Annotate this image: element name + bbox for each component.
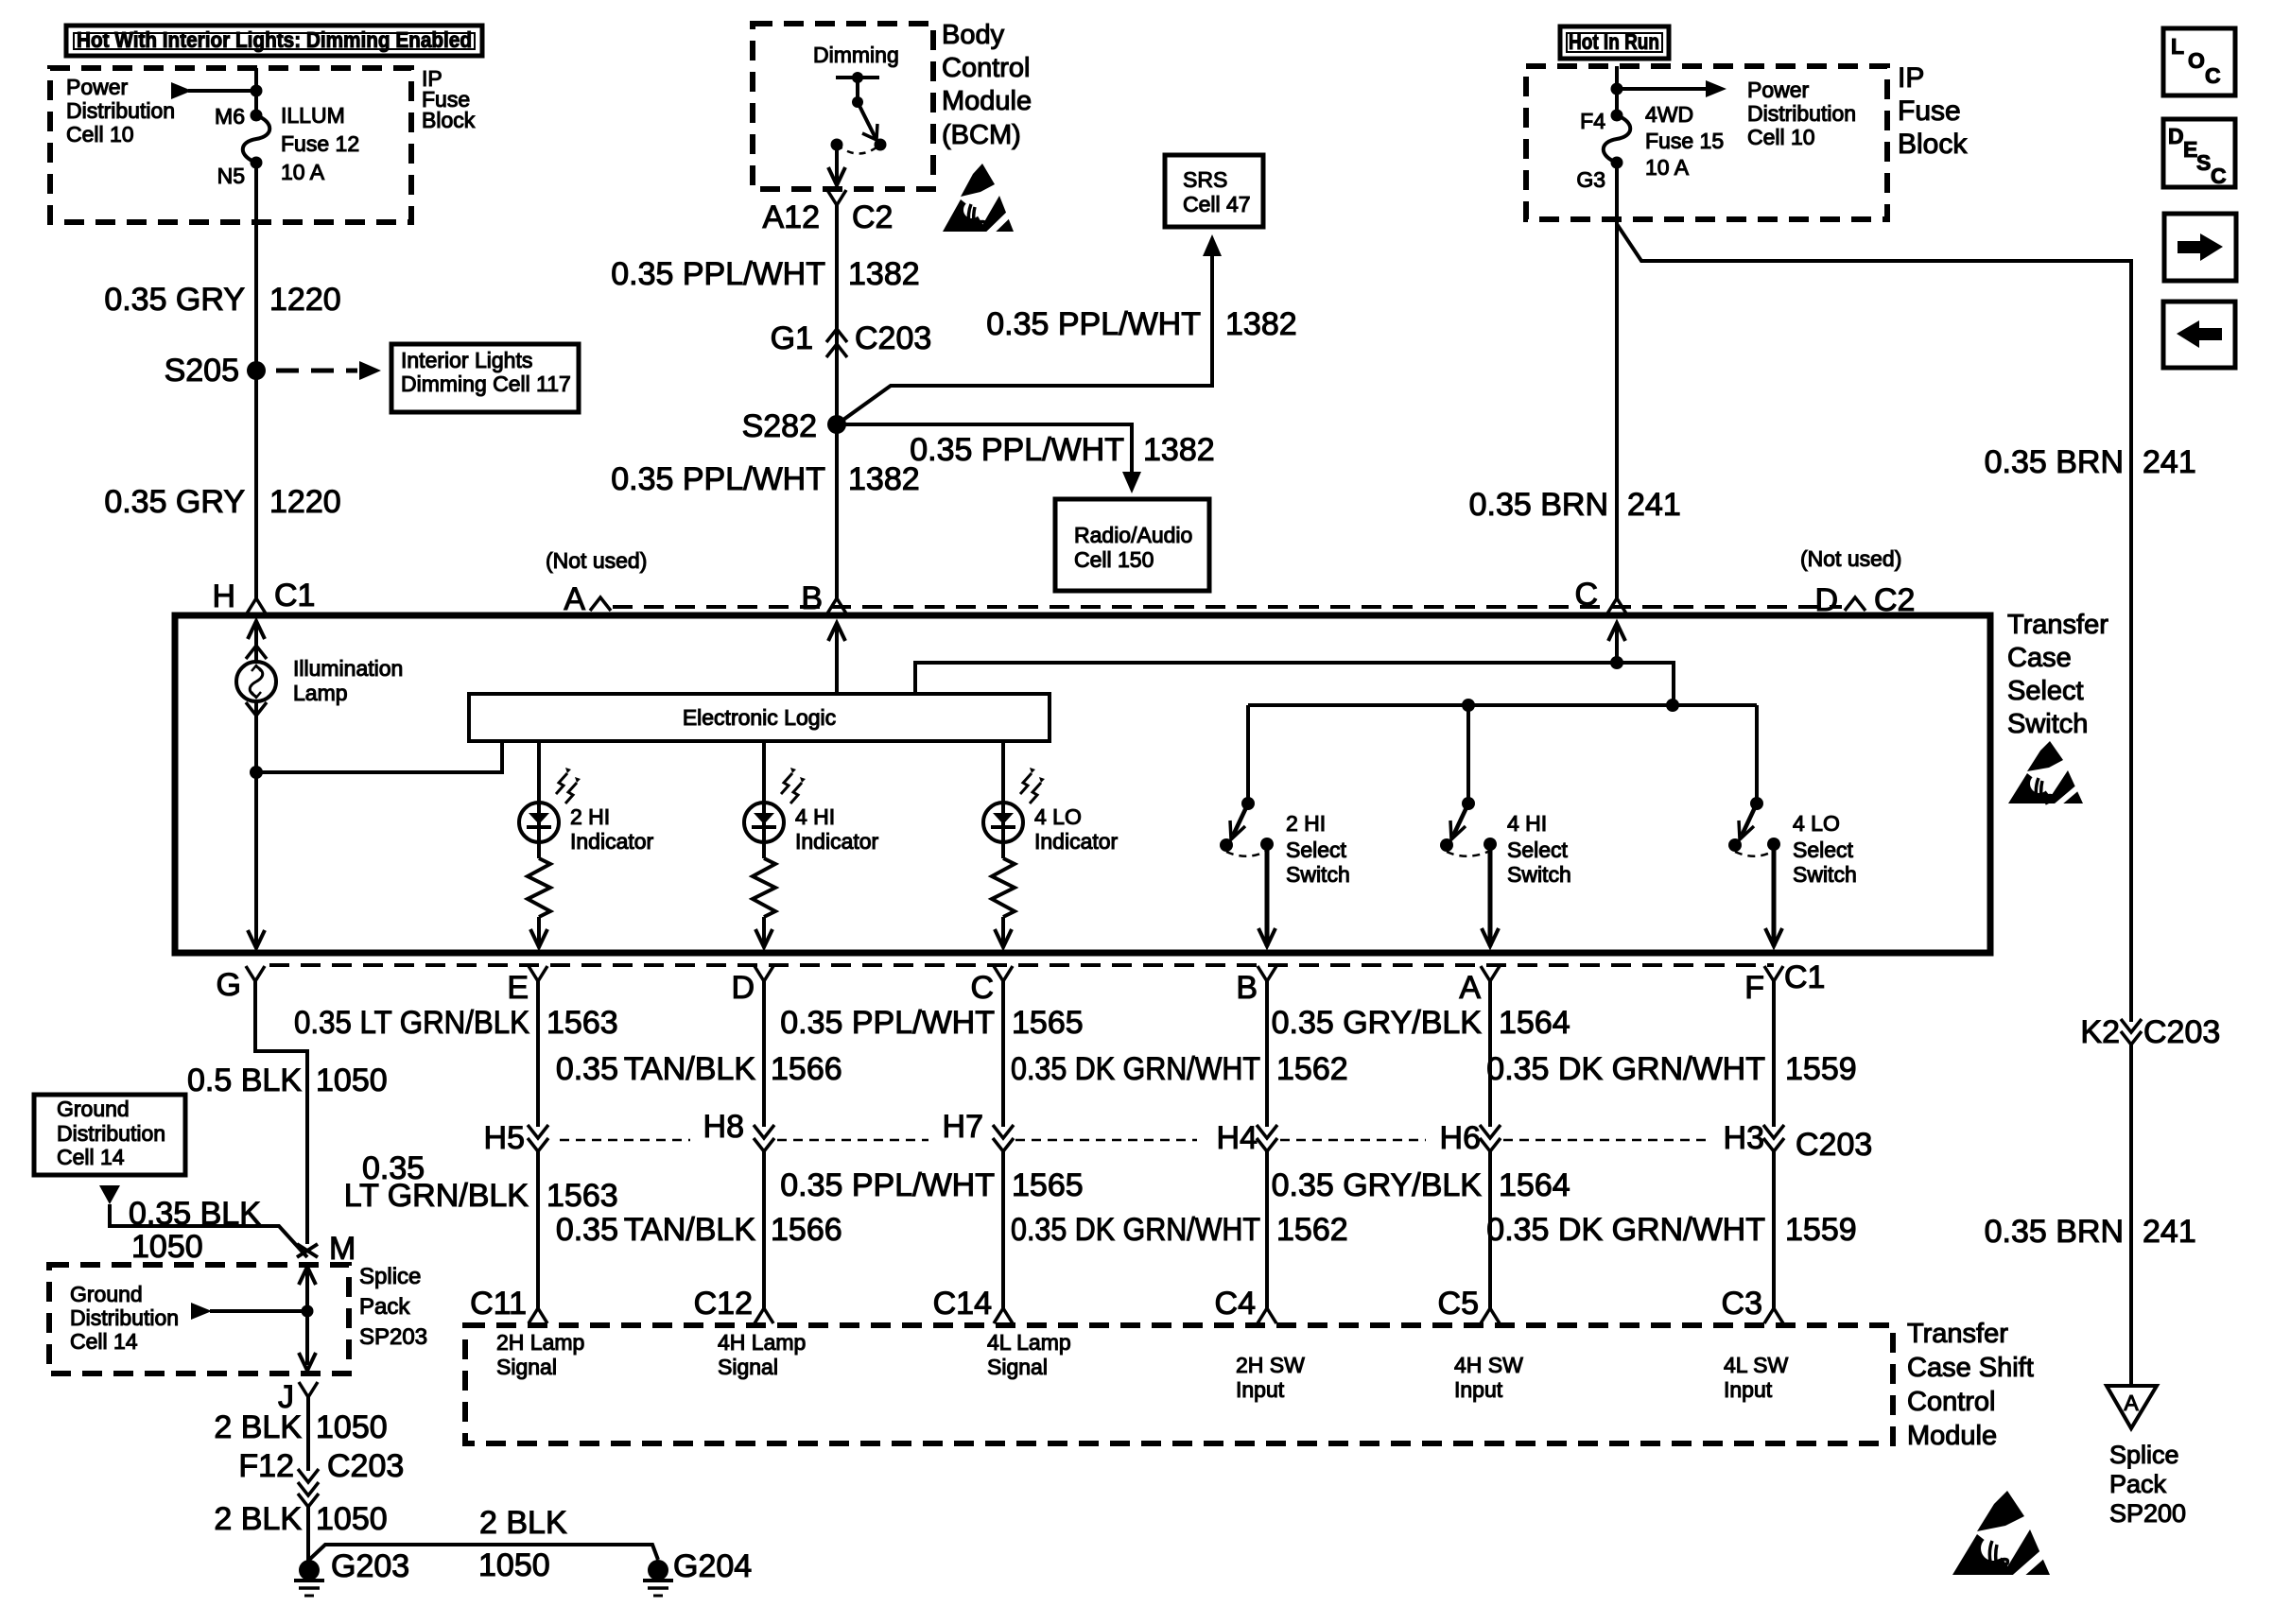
svg-text:Switch: Switch (1286, 862, 1350, 887)
svg-text:Indicator: Indicator (1034, 829, 1119, 854)
wire: 2 BLK 1050 C203 to G203 (306, 1507, 310, 1570)
svg-text:1220: 1220 (269, 484, 341, 520)
svg-text:L: L (2171, 34, 2184, 59)
svg-text:1564: 1564 (1499, 1167, 1570, 1203)
svg-text:4 HI: 4 HI (1507, 811, 1547, 836)
connector C203 chevrons column F (1763, 1125, 1784, 1138)
svg-text:241: 241 (2143, 1214, 2196, 1250)
IP fuse block dashed box (right) (1526, 66, 1887, 219)
node: feed junction at C riser (1610, 656, 1623, 669)
4 HI select switch (1462, 797, 1475, 810)
svg-text:0.35 GRY: 0.35 GRY (104, 282, 245, 318)
svg-text:TAN/BLK: TAN/BLK (624, 1212, 756, 1248)
svg-text:0.35 DK GRN/WHT: 0.35 DK GRN/WHT (1011, 1212, 1260, 1248)
svg-text:SP203: SP203 (359, 1324, 427, 1350)
svg-text:H: H (212, 579, 235, 614)
Transfer Case Select Switch box (175, 615, 1990, 953)
svg-text:0.35 PPL/WHT: 0.35 PPL/WHT (910, 432, 1124, 468)
wire: electronic logic ground branch (256, 741, 502, 772)
svg-text:0.35 LT GRN/BLK: 0.35 LT GRN/BLK (294, 1005, 529, 1041)
fuse F12 ILLUM Fuse 12 10 A symbol (243, 115, 270, 163)
svg-text:0.35 PPL/WHT: 0.35 PPL/WHT (611, 256, 825, 292)
Electronic Logic box (469, 694, 1050, 741)
svg-text:1563: 1563 (547, 1178, 618, 1214)
svg-text:N5: N5 (217, 164, 245, 188)
svg-text:1382: 1382 (848, 256, 920, 292)
svg-text:Distribution: Distribution (57, 1121, 165, 1146)
svg-text:A: A (2124, 1391, 2139, 1415)
Radio/Audio Cell 150 box (1055, 499, 1209, 591)
svg-text:Splice: Splice (2109, 1441, 2179, 1469)
ground G204 (648, 1560, 668, 1581)
svg-text:2 HI: 2 HI (570, 804, 610, 829)
wire: 4LO switch feed drop (1755, 705, 1759, 802)
svg-text:241: 241 (1627, 487, 1681, 523)
svg-text:Transfer: Transfer (2007, 610, 2108, 640)
svg-text:O: O (2188, 48, 2205, 73)
wire: electronic logic to 4 LO indicator (1001, 741, 1005, 803)
svg-text:4H Lamp: 4H Lamp (718, 1330, 806, 1355)
svg-text:M6: M6 (215, 104, 245, 129)
svg-text:G204: G204 (673, 1548, 752, 1584)
svg-text:Switch: Switch (1507, 862, 1571, 887)
svg-text:2H Lamp: 2H Lamp (496, 1330, 584, 1355)
svg-text:A: A (1459, 970, 1481, 1006)
Interior Lights Dimming Cell 117 box (391, 344, 579, 412)
wire: column B upper segment (1265, 981, 1269, 1127)
svg-text:D: D (2168, 124, 2184, 148)
svg-text:Illumination: Illumination (293, 656, 403, 681)
svg-text:C5: C5 (1438, 1286, 1479, 1322)
svg-text:H7: H7 (943, 1109, 983, 1145)
wire: column D upper segment (762, 981, 766, 1127)
svg-text:Ground: Ground (70, 1282, 143, 1306)
next arrow nav box (2164, 214, 2236, 281)
wire: column D lower segment (762, 1151, 766, 1308)
svg-text:Fuse 12: Fuse 12 (281, 131, 359, 156)
connector C203 chevrons column E (528, 1125, 548, 1138)
svg-text:G1: G1 (771, 320, 813, 356)
svg-text:F: F (1744, 970, 1764, 1006)
svg-text:Select: Select (1793, 838, 1854, 862)
svg-text:Select: Select (1286, 838, 1347, 862)
svg-text:Cell 150: Cell 150 (1074, 547, 1154, 572)
Ground Distribution Cell 14 box (34, 1095, 185, 1175)
wire: electronic logic to select switch feed (915, 663, 1674, 705)
svg-text:C12: C12 (694, 1286, 753, 1322)
svg-text:C: C (2211, 164, 2227, 188)
svg-text:B: B (1236, 970, 1258, 1006)
wire: fuse block top stub (right) (1615, 66, 1619, 115)
svg-text:1563: 1563 (547, 1005, 618, 1041)
svg-text:Select: Select (2007, 676, 2084, 706)
svg-text:0.35: 0.35 (556, 1051, 618, 1087)
resistor for 4 HI indicator (762, 842, 766, 858)
svg-text:1562: 1562 (1276, 1051, 1348, 1087)
svg-text:1559: 1559 (1785, 1051, 1857, 1087)
svg-text:Module: Module (1907, 1421, 1997, 1451)
svg-text:SRS: SRS (1183, 167, 1227, 192)
SRS Cell 47 box (1165, 155, 1263, 227)
illumination lamp symbol (236, 662, 276, 701)
wire: column E lower segment (536, 1151, 540, 1308)
wire: 0.35 BRN 241 branch to right edge (1617, 224, 2131, 1022)
ground reference triangle (99, 1185, 120, 1204)
svg-text:H8: H8 (703, 1109, 744, 1145)
svg-text:S: S (2196, 150, 2211, 175)
svg-text:2 BLK: 2 BLK (214, 1501, 302, 1537)
svg-text:SP200: SP200 (2109, 1499, 2186, 1528)
svg-text:Lamp: Lamp (293, 681, 348, 705)
svg-text:H4: H4 (1217, 1120, 1258, 1156)
svg-text:2 HI: 2 HI (1286, 811, 1326, 836)
svg-text:Power: Power (1747, 78, 1810, 102)
4 LO select switch (1750, 797, 1763, 810)
svg-text:4H SW: 4H SW (1454, 1353, 1523, 1377)
svg-text:Signal: Signal (718, 1355, 778, 1379)
svg-text:4WD: 4WD (1645, 102, 1693, 127)
svg-text:Pack: Pack (2109, 1470, 2167, 1498)
svg-text:G: G (217, 967, 241, 1003)
DESC nav box (2163, 119, 2235, 187)
svg-text:0.35 PPL/WHT: 0.35 PPL/WHT (986, 306, 1201, 342)
svg-text:1382: 1382 (1225, 306, 1297, 342)
svg-text:Switch: Switch (2007, 709, 2088, 739)
ground distribution feed arrow (210, 1309, 307, 1313)
wire: illumination lamp feed (248, 621, 265, 639)
wire: S282 branch to Radio/Audio (837, 424, 1132, 473)
svg-text:Electronic Logic: Electronic Logic (683, 705, 836, 730)
svg-text:0.35 BRN: 0.35 BRN (1985, 1214, 2124, 1250)
wire: column C upper segment (1001, 981, 1005, 1127)
svg-text:(BCM): (BCM) (942, 120, 1021, 150)
svg-text:0.35 DK GRN/WHT: 0.35 DK GRN/WHT (1486, 1051, 1765, 1087)
wire: dimmer output (835, 145, 839, 185)
resistor for 2 HI indicator (537, 842, 541, 858)
svg-text:0.35 GRY/BLK: 0.35 GRY/BLK (1272, 1005, 1483, 1041)
svg-text:Transfer: Transfer (1907, 1319, 2008, 1349)
svg-text:Case: Case (2007, 643, 2072, 673)
svg-text:4 LO: 4 LO (1034, 804, 1082, 829)
svg-text:0.35 PPL/WHT: 0.35 PPL/WHT (780, 1167, 995, 1203)
svg-text:Indicator: Indicator (795, 829, 879, 854)
2 HI indicator LED symbol (519, 803, 559, 842)
wire: lamp return to pin G (254, 772, 258, 948)
svg-text:4L SW: 4L SW (1724, 1353, 1788, 1377)
connector C203 chevrons column C (993, 1125, 1014, 1138)
svg-text:C14: C14 (933, 1286, 992, 1322)
wire: BCM dimming input to electronic logic (828, 623, 845, 641)
node: bus junction at right riser (1666, 699, 1679, 712)
banner box: Hot With Interior Lights: Dimming Enabled (66, 26, 482, 56)
previous arrow nav box (2163, 302, 2235, 368)
node: fuse feed junction (251, 85, 263, 97)
Body Control Module dashed box (753, 24, 933, 189)
resistor for 4 LO indicator (1001, 842, 1005, 858)
svg-text:C1: C1 (274, 578, 315, 613)
wire: column E upper segment (536, 981, 540, 1127)
svg-text:Signal: Signal (987, 1355, 1048, 1379)
svg-text:C4: C4 (1215, 1286, 1256, 1322)
svg-text:K2: K2 (2080, 1014, 2120, 1050)
connector C203 chevrons column A (1480, 1125, 1501, 1138)
svg-text:10 A: 10 A (281, 160, 325, 184)
connector C203 chevrons column B (1257, 1125, 1277, 1138)
wire: 2 BLK 1050 to G204 (309, 1545, 658, 1560)
svg-text:Interior Lights: Interior Lights (401, 348, 532, 372)
wire: column F lower segment (1772, 1151, 1776, 1308)
svg-text:C203: C203 (327, 1448, 404, 1484)
svg-text:10 A: 10 A (1645, 155, 1690, 180)
svg-text:C203: C203 (1796, 1127, 1872, 1163)
svg-text:Hot In Run: Hot In Run (1569, 29, 1659, 54)
svg-text:1559: 1559 (1785, 1212, 1857, 1248)
wire: fuse block top stub (254, 68, 258, 115)
svg-text:1050: 1050 (316, 1409, 388, 1445)
svg-text:Select: Select (1507, 838, 1569, 862)
svg-text:Cell 14: Cell 14 (57, 1145, 125, 1169)
svg-text:S282: S282 (742, 408, 817, 444)
svg-text:C203: C203 (2143, 1014, 2220, 1050)
svg-text:C203: C203 (855, 320, 931, 356)
svg-text:(Not used): (Not used) (546, 548, 647, 573)
svg-text:1050: 1050 (316, 1501, 388, 1537)
svg-text:H6: H6 (1440, 1120, 1481, 1156)
svg-text:1220: 1220 (269, 282, 341, 318)
svg-text:1050: 1050 (478, 1547, 550, 1583)
svg-text:1565: 1565 (1012, 1005, 1084, 1041)
wire: splice pack through wire (299, 1267, 316, 1285)
svg-text:C: C (2205, 63, 2221, 88)
wire: 0.35 BRN 241 down to pin C (1615, 163, 1619, 598)
node: lamp/logic junction (250, 766, 263, 779)
svg-text:Control: Control (1907, 1387, 1996, 1417)
wire: electronic logic to 4 HI indicator (762, 741, 766, 803)
fuse 4WD Fuse 15 10 A symbol (1604, 115, 1631, 163)
svg-text:0.35 GRY/BLK: 0.35 GRY/BLK (1272, 1167, 1483, 1203)
node: splice pack junction (302, 1305, 314, 1318)
svg-text:0.35 BRN: 0.35 BRN (1469, 487, 1608, 523)
svg-text:A: A (564, 581, 585, 617)
svg-text:C3: C3 (1722, 1286, 1762, 1322)
svg-text:LT GRN/BLK: LT GRN/BLK (344, 1178, 529, 1214)
svg-text:Fuse: Fuse (1898, 95, 1961, 127)
svg-text:1562: 1562 (1276, 1212, 1348, 1248)
connector C203 chevrons column D (754, 1125, 774, 1138)
svg-text:B: B (801, 580, 823, 616)
svg-text:G3: G3 (1576, 167, 1605, 192)
svg-text:Ground: Ground (57, 1097, 130, 1121)
svg-text:C2: C2 (852, 199, 893, 235)
svg-text:Pack: Pack (359, 1294, 410, 1320)
wire: 0.35 PPL/WHT 1382 BCM to S282 (835, 205, 839, 598)
svg-text:Distribution: Distribution (66, 98, 175, 123)
svg-text:Cell 47: Cell 47 (1183, 192, 1251, 216)
svg-text:Distribution: Distribution (70, 1305, 179, 1330)
connector G1 / C203 in-line (826, 329, 847, 342)
svg-text:C1: C1 (1784, 959, 1825, 995)
wire: below illumination lamp (246, 702, 267, 716)
svg-text:Power: Power (66, 75, 129, 99)
wire: 0.5 BLK 1050 pin G to splice pack (255, 981, 307, 1244)
svg-text:Fuse 15: Fuse 15 (1645, 129, 1724, 153)
svg-text:0.35 DK GRN/WHT: 0.35 DK GRN/WHT (1486, 1212, 1765, 1248)
svg-text:Input: Input (1454, 1377, 1503, 1402)
svg-text:1382: 1382 (1143, 432, 1215, 468)
svg-text:(Not used): (Not used) (1800, 546, 1901, 571)
svg-text:1566: 1566 (771, 1212, 842, 1248)
svg-text:0.5 BLK: 0.5 BLK (187, 1063, 302, 1098)
svg-text:4 LO: 4 LO (1793, 811, 1840, 836)
svg-text:Radio/Audio: Radio/Audio (1074, 523, 1192, 547)
svg-text:H3: H3 (1724, 1120, 1764, 1156)
splice pin M (297, 1244, 318, 1257)
svg-text:Input: Input (1724, 1377, 1773, 1402)
svg-text:M: M (329, 1231, 356, 1267)
pin A12 of connector C2 (827, 190, 846, 205)
wire: S282 branch to SRS (837, 255, 1212, 424)
power distribution feed arrow (188, 89, 256, 93)
svg-text:4 HI: 4 HI (795, 804, 835, 829)
svg-text:2 BLK: 2 BLK (479, 1505, 567, 1541)
svg-text:Splice: Splice (359, 1264, 421, 1289)
svg-text:Body: Body (942, 20, 1005, 50)
svg-text:F4: F4 (1580, 109, 1605, 133)
connector C1/C2 dashed line (top) (613, 605, 1842, 609)
ESD sensitivity symbol (select switch) (2027, 741, 2063, 771)
wire: 0.35 BLK 1050 to splice M (110, 1204, 307, 1257)
svg-text:Distribution: Distribution (1747, 101, 1856, 126)
svg-text:D: D (731, 970, 755, 1006)
svg-text:Case Shift: Case Shift (1907, 1353, 2034, 1383)
power distribution reference arrow (right) (1617, 87, 1706, 91)
svg-text:Dimming: Dimming (813, 43, 899, 67)
svg-text:Signal: Signal (496, 1355, 557, 1379)
svg-text:4L Lamp: 4L Lamp (987, 1330, 1071, 1355)
connector C203 dashed line (560, 1139, 690, 1142)
svg-text:Control: Control (942, 53, 1031, 83)
svg-text:G203: G203 (331, 1548, 409, 1584)
svg-text:F12: F12 (238, 1448, 294, 1484)
wire: switch feed bus (1248, 703, 1757, 707)
svg-text:Block: Block (1898, 129, 1968, 160)
wire: 0.35 BRN 241 to splice pack SP200 (2129, 1045, 2133, 1386)
wire: column C lower segment (1001, 1151, 1005, 1308)
4 HI indicator LED symbol (744, 803, 784, 842)
svg-text:Cell 10: Cell 10 (1747, 125, 1815, 149)
4 LO indicator LED symbol (983, 803, 1023, 842)
svg-text:1050: 1050 (316, 1063, 388, 1098)
wire: 4HI switch feed drop (1466, 705, 1470, 802)
svg-text:Cell 10: Cell 10 (66, 122, 134, 147)
wire: riser to pin C (1608, 623, 1625, 641)
splice pack SP200 triangle (2107, 1386, 2157, 1428)
svg-text:Block: Block (422, 108, 476, 132)
svg-text:1564: 1564 (1499, 1005, 1570, 1041)
wire: 2 HI indicator output (537, 917, 541, 947)
svg-text:C11: C11 (470, 1286, 527, 1322)
wire: 4 HI indicator output (762, 917, 766, 947)
wire: column F upper segment (1772, 981, 1776, 1127)
svg-text:0.35 PPL/WHT: 0.35 PPL/WHT (780, 1005, 995, 1041)
svg-text:0.35 BRN: 0.35 BRN (1985, 444, 2124, 480)
svg-text:1565: 1565 (1012, 1167, 1084, 1203)
2 HI select switch (1241, 797, 1255, 810)
svg-text:0.35 GRY: 0.35 GRY (104, 484, 245, 520)
svg-text:TAN/BLK: TAN/BLK (624, 1051, 756, 1087)
svg-text:0.35 DK GRN/WHT: 0.35 DK GRN/WHT (1011, 1051, 1260, 1087)
wire: 2HI switch feed drop (1246, 705, 1250, 802)
dimmer rheostat switch symbol (836, 76, 879, 79)
svg-text:ILLUM: ILLUM (281, 103, 345, 128)
svg-text:Hot With Interior Lights: Dimm: Hot With Interior Lights: Dimming Enable… (77, 27, 472, 52)
svg-text:241: 241 (2143, 444, 2196, 480)
wire: column B lower segment (1265, 1151, 1269, 1308)
svg-text:1050: 1050 (131, 1229, 203, 1265)
ESD sensitivity symbol (shift control module) (1977, 1491, 2024, 1531)
node: bus junction 4HI (1462, 699, 1475, 712)
svg-text:1382: 1382 (848, 461, 920, 497)
banner box: Hot In Run (1560, 26, 1669, 59)
svg-text:Switch: Switch (1793, 862, 1857, 887)
wire: column A lower segment (1488, 1151, 1492, 1308)
svg-text:0.35 BLK: 0.35 BLK (129, 1196, 261, 1232)
svg-text:2H SW: 2H SW (1236, 1353, 1305, 1377)
svg-text:Cell 14: Cell 14 (70, 1329, 138, 1354)
wire: 2 BLK 1050 J to C203 (306, 1397, 310, 1471)
connector C1 dashed line (bottom) (269, 963, 1774, 967)
svg-text:Dimming Cell 117: Dimming Cell 117 (401, 371, 571, 396)
svg-text:A12: A12 (763, 199, 821, 235)
IP fuse block dashed box (left) (50, 68, 411, 222)
wire: electronic logic to 2 HI indicator (537, 741, 541, 803)
wire: 4 LO indicator output (1001, 917, 1005, 947)
svg-text:1566: 1566 (771, 1051, 842, 1087)
svg-text:Input: Input (1236, 1377, 1285, 1402)
dashed reference arrow to dimming cell (276, 369, 357, 373)
svg-text:H5: H5 (484, 1120, 525, 1156)
svg-text:S205: S205 (165, 353, 239, 389)
svg-text:0.35: 0.35 (556, 1212, 618, 1248)
ground G203 (299, 1560, 320, 1581)
svg-text:Module: Module (942, 86, 1032, 116)
svg-text:E: E (507, 970, 529, 1006)
svg-text:IP: IP (1898, 62, 1924, 94)
Ground Distribution Cell 14 dashed box (49, 1265, 349, 1373)
wire: 0.35 GRY 1220 from fuse to S205 (254, 163, 258, 598)
ESD sensitivity symbol (BCM) (961, 164, 995, 197)
Transfer Case Shift Control Module dashed box (465, 1325, 1893, 1443)
svg-text:C: C (970, 970, 994, 1006)
svg-text:2 BLK: 2 BLK (214, 1409, 302, 1445)
LOC nav box (2163, 28, 2235, 95)
wire: column A upper segment (1488, 981, 1492, 1127)
svg-text:0.35 PPL/WHT: 0.35 PPL/WHT (611, 461, 825, 497)
svg-text:Indicator: Indicator (570, 829, 654, 854)
